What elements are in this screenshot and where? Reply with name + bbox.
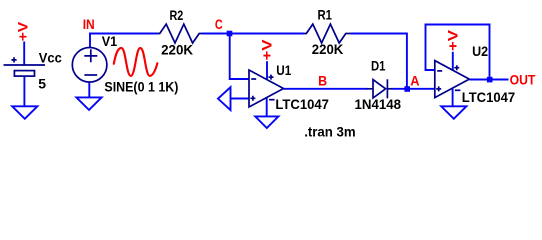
svg-text:OUT: OUT	[510, 71, 536, 87]
svg-text:U1: U1	[276, 62, 291, 78]
svg-text:.tran 3m: .tran 3m	[304, 123, 356, 139]
svg-text:R1: R1	[318, 7, 333, 23]
svg-text:C: C	[215, 16, 223, 32]
svg-text:Vcc: Vcc	[39, 49, 62, 65]
svg-text:IN: IN	[83, 16, 95, 32]
svg-text:+V: +V	[258, 39, 274, 61]
svg-text:220K: 220K	[312, 41, 344, 57]
svg-text:LTC1047: LTC1047	[462, 89, 516, 105]
svg-text:LTC1047: LTC1047	[275, 96, 329, 112]
svg-text:1N4148: 1N4148	[355, 96, 402, 112]
svg-text:U2: U2	[472, 43, 488, 59]
svg-text:R2: R2	[170, 7, 184, 23]
svg-text:+V: +V	[14, 21, 30, 41]
svg-text:5: 5	[38, 75, 46, 91]
svg-text:+V: +V	[444, 29, 460, 51]
svg-text:A: A	[410, 73, 419, 89]
svg-text:B: B	[318, 73, 327, 89]
svg-text:SINE(0 1 1K): SINE(0 1 1K)	[104, 79, 178, 95]
svg-text:V1: V1	[102, 33, 118, 49]
svg-text:D1: D1	[371, 58, 386, 74]
svg-text:220K: 220K	[161, 42, 193, 58]
